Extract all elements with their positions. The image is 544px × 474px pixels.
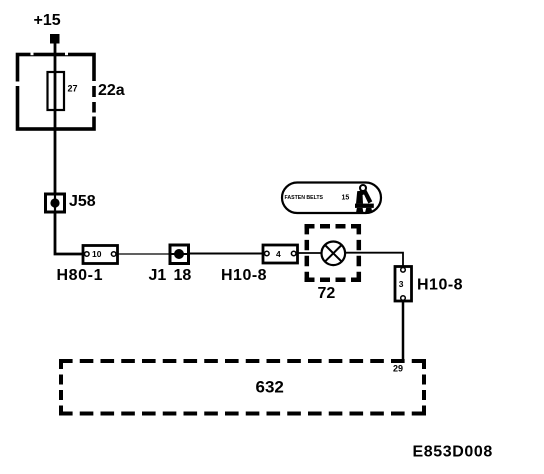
fuse holder box 22a (border with scan nicks) [15, 52, 98, 129]
svg-text:3: 3 [399, 279, 404, 289]
terminal +15 (filled square) [50, 34, 60, 44]
instrument cluster pill (fasten belts telltale) [282, 183, 381, 214]
svg-text:22a: 22a [98, 82, 125, 99]
wire H80-1 to J1 (thin) [118, 253, 170, 255]
wire through fuse down to J58 [54, 54, 57, 193]
svg-text:4: 4 [276, 249, 281, 259]
svg-text:18: 18 [174, 267, 192, 284]
lamp symbol (circle with X) [322, 242, 346, 266]
wire lamp 72 to right H10-8 [345, 253, 403, 267]
svg-text:H80-1: H80-1 [57, 267, 104, 284]
label J1 18 [149, 267, 192, 284]
connector H80-1 pin 10 [83, 246, 118, 264]
wire from +15 terminal into fuse box [54, 43, 57, 56]
svg-text:632: 632 [256, 378, 284, 397]
wire H10-8 down to unit 632 [402, 302, 405, 362]
svg-text:29: 29 [393, 364, 403, 374]
svg-text:H10-8: H10-8 [417, 277, 463, 294]
svg-text:+15: +15 [34, 12, 61, 29]
bulb housing 72 (dashed box) [305, 224, 362, 282]
wire J58 down and right to H80-1 [55, 212, 83, 254]
svg-text:15: 15 [342, 194, 350, 201]
svg-text:J58: J58 [69, 193, 96, 210]
svg-text:J1: J1 [149, 267, 167, 284]
svg-text:72: 72 [318, 285, 336, 302]
wire J1 to H10-8 [188, 253, 263, 255]
fasten-seatbelt icon (seated figure) [355, 185, 374, 213]
control unit 632 (dashed box) [59, 359, 426, 416]
wire H10-8 into lamp 72 [298, 252, 323, 254]
junction J58 (box with dot) [46, 194, 65, 212]
fuse element 27 (rectangle over wire) [48, 72, 65, 110]
svg-text:FASTEN BELTS: FASTEN BELTS [285, 195, 324, 201]
connector H10-8 pin 3 (vertical) [395, 267, 412, 302]
svg-text:10: 10 [92, 249, 102, 259]
connector H10-8 pin 4 [263, 245, 298, 263]
junction J1 pin 18 (box with dot) [170, 245, 189, 264]
svg-text:E853D008: E853D008 [413, 444, 493, 461]
svg-text:H10-8: H10-8 [221, 267, 267, 284]
svg-text:27: 27 [68, 84, 78, 94]
